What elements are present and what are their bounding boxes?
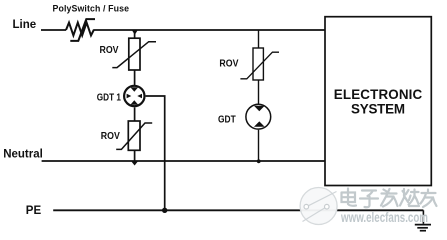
wire Neutral (42, 160, 325, 162)
watermark logo circle (300, 188, 337, 225)
varistor ROV3 (240, 48, 279, 80)
wire middle branch from Line to ROV3 (258, 30, 260, 49)
label ROV of ROV2 (101, 129, 121, 141)
wire ROV3 to GDT (258, 80, 260, 104)
watermark text dianzifashaoyou (342, 189, 437, 208)
wire Line right segment (94, 29, 325, 31)
svg-text:ROV: ROV (100, 44, 120, 56)
junction on PE at GDT1 earth wire (162, 208, 167, 213)
wire Line tap to ROV1 (134, 30, 136, 39)
wire ROV2 to Neutral (134, 150, 136, 161)
gas discharge tube GDT (246, 104, 271, 129)
wire GDT1 to ROV2 (134, 107, 136, 121)
junction GDT wire on Neutral (257, 159, 261, 163)
thermistor strike on F1 (70, 19, 95, 41)
svg-text:ELECTRONIC: ELECTRONIC (334, 87, 423, 102)
junction on Neutral (131, 162, 137, 166)
label GDT1 (97, 90, 121, 102)
label Line (13, 19, 37, 31)
svg-text:Line: Line (13, 19, 37, 31)
svg-text:Neutral: Neutral (3, 148, 43, 160)
label PolySwitch / Fuse (53, 4, 130, 14)
ground symbol at PE end (415, 210, 431, 230)
junction on Line at ROV1 tap (132, 30, 139, 35)
label ELECTRONIC SYSTEM (334, 87, 423, 116)
svg-text:www.elecfans.com: www.elecfans.com (340, 210, 428, 225)
label Neutral (3, 148, 43, 160)
svg-text:PolySwitch / Fuse: PolySwitch / Fuse (53, 4, 130, 14)
watermark text www.elecfans.com (340, 210, 428, 225)
wire Line left segment (41, 29, 66, 31)
svg-text:ROV: ROV (101, 129, 121, 141)
wire GDT to Neutral (258, 130, 260, 161)
wire ROV1 to GDT1 (134, 70, 136, 85)
svg-text:GDT 1: GDT 1 (97, 90, 121, 102)
svg-text:ROV: ROV (219, 57, 239, 69)
varistor ROV1 (112, 38, 156, 70)
varistor ROV2 (116, 121, 152, 150)
label PE (26, 205, 42, 217)
label ROV of ROV3 (219, 57, 239, 69)
label ROV of ROV1 (100, 44, 120, 56)
wire PE (53, 209, 423, 211)
resistor F1 PolySwitch zigzag (66, 23, 94, 36)
gas discharge tube GDT1 (124, 86, 144, 106)
wire GDT1 side electrode to PE (146, 96, 165, 210)
svg-text:SYSTEM: SYSTEM (351, 101, 405, 116)
svg-text:GDT: GDT (218, 114, 236, 126)
box ELECTRONIC SYSTEM (325, 17, 431, 186)
label GDT (218, 114, 236, 126)
svg-text:PE: PE (26, 205, 42, 217)
